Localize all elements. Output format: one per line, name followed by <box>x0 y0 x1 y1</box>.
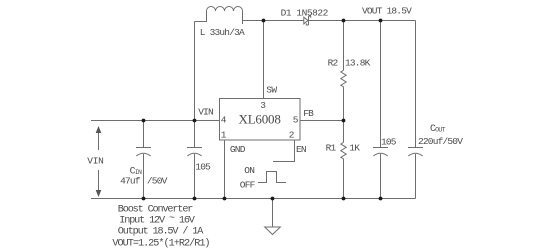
svg-text:FB: FB <box>303 108 314 119</box>
svg-text:D1 1N5822: D1 1N5822 <box>281 8 329 19</box>
svg-text:SW: SW <box>266 84 277 95</box>
svg-text:47uf: 47uf <box>120 176 141 187</box>
svg-text:13.8K: 13.8K <box>345 58 371 69</box>
svg-text:VIN: VIN <box>87 156 103 167</box>
svg-text:2: 2 <box>289 130 295 141</box>
svg-text:/50V: /50V <box>147 176 168 187</box>
svg-text:3: 3 <box>260 100 266 111</box>
svg-text:Output 18.5V / 1A: Output 18.5V / 1A <box>118 226 204 238</box>
svg-text:GND: GND <box>230 144 246 155</box>
svg-text:Boost Converter: Boost Converter <box>118 205 193 216</box>
svg-text:VOUT=1.25*(1+R2/R1): VOUT=1.25*(1+R2/R1) <box>112 238 209 250</box>
svg-text:220uf/50V: 220uf/50V <box>418 136 463 147</box>
svg-text:VIN: VIN <box>198 106 213 117</box>
svg-text:105: 105 <box>195 162 211 173</box>
svg-text:VOUT 18.5V: VOUT 18.5V <box>362 6 412 17</box>
svg-text:R2: R2 <box>328 58 339 69</box>
svg-text:L 33uh/3A: L 33uh/3A <box>200 27 245 38</box>
svg-text:ON: ON <box>244 165 254 176</box>
svg-text:R1: R1 <box>326 143 337 154</box>
svg-text:1K: 1K <box>349 143 360 154</box>
svg-text:EN: EN <box>296 144 306 155</box>
svg-text:4: 4 <box>221 115 227 126</box>
svg-text:1: 1 <box>221 130 227 141</box>
svg-text:105: 105 <box>381 137 397 148</box>
svg-text:Input 12V ~ 16V: Input 12V ~ 16V <box>119 213 195 226</box>
svg-text:5: 5 <box>293 115 299 126</box>
svg-text:OFF: OFF <box>240 179 256 190</box>
svg-text:XL6008: XL6008 <box>239 112 281 127</box>
